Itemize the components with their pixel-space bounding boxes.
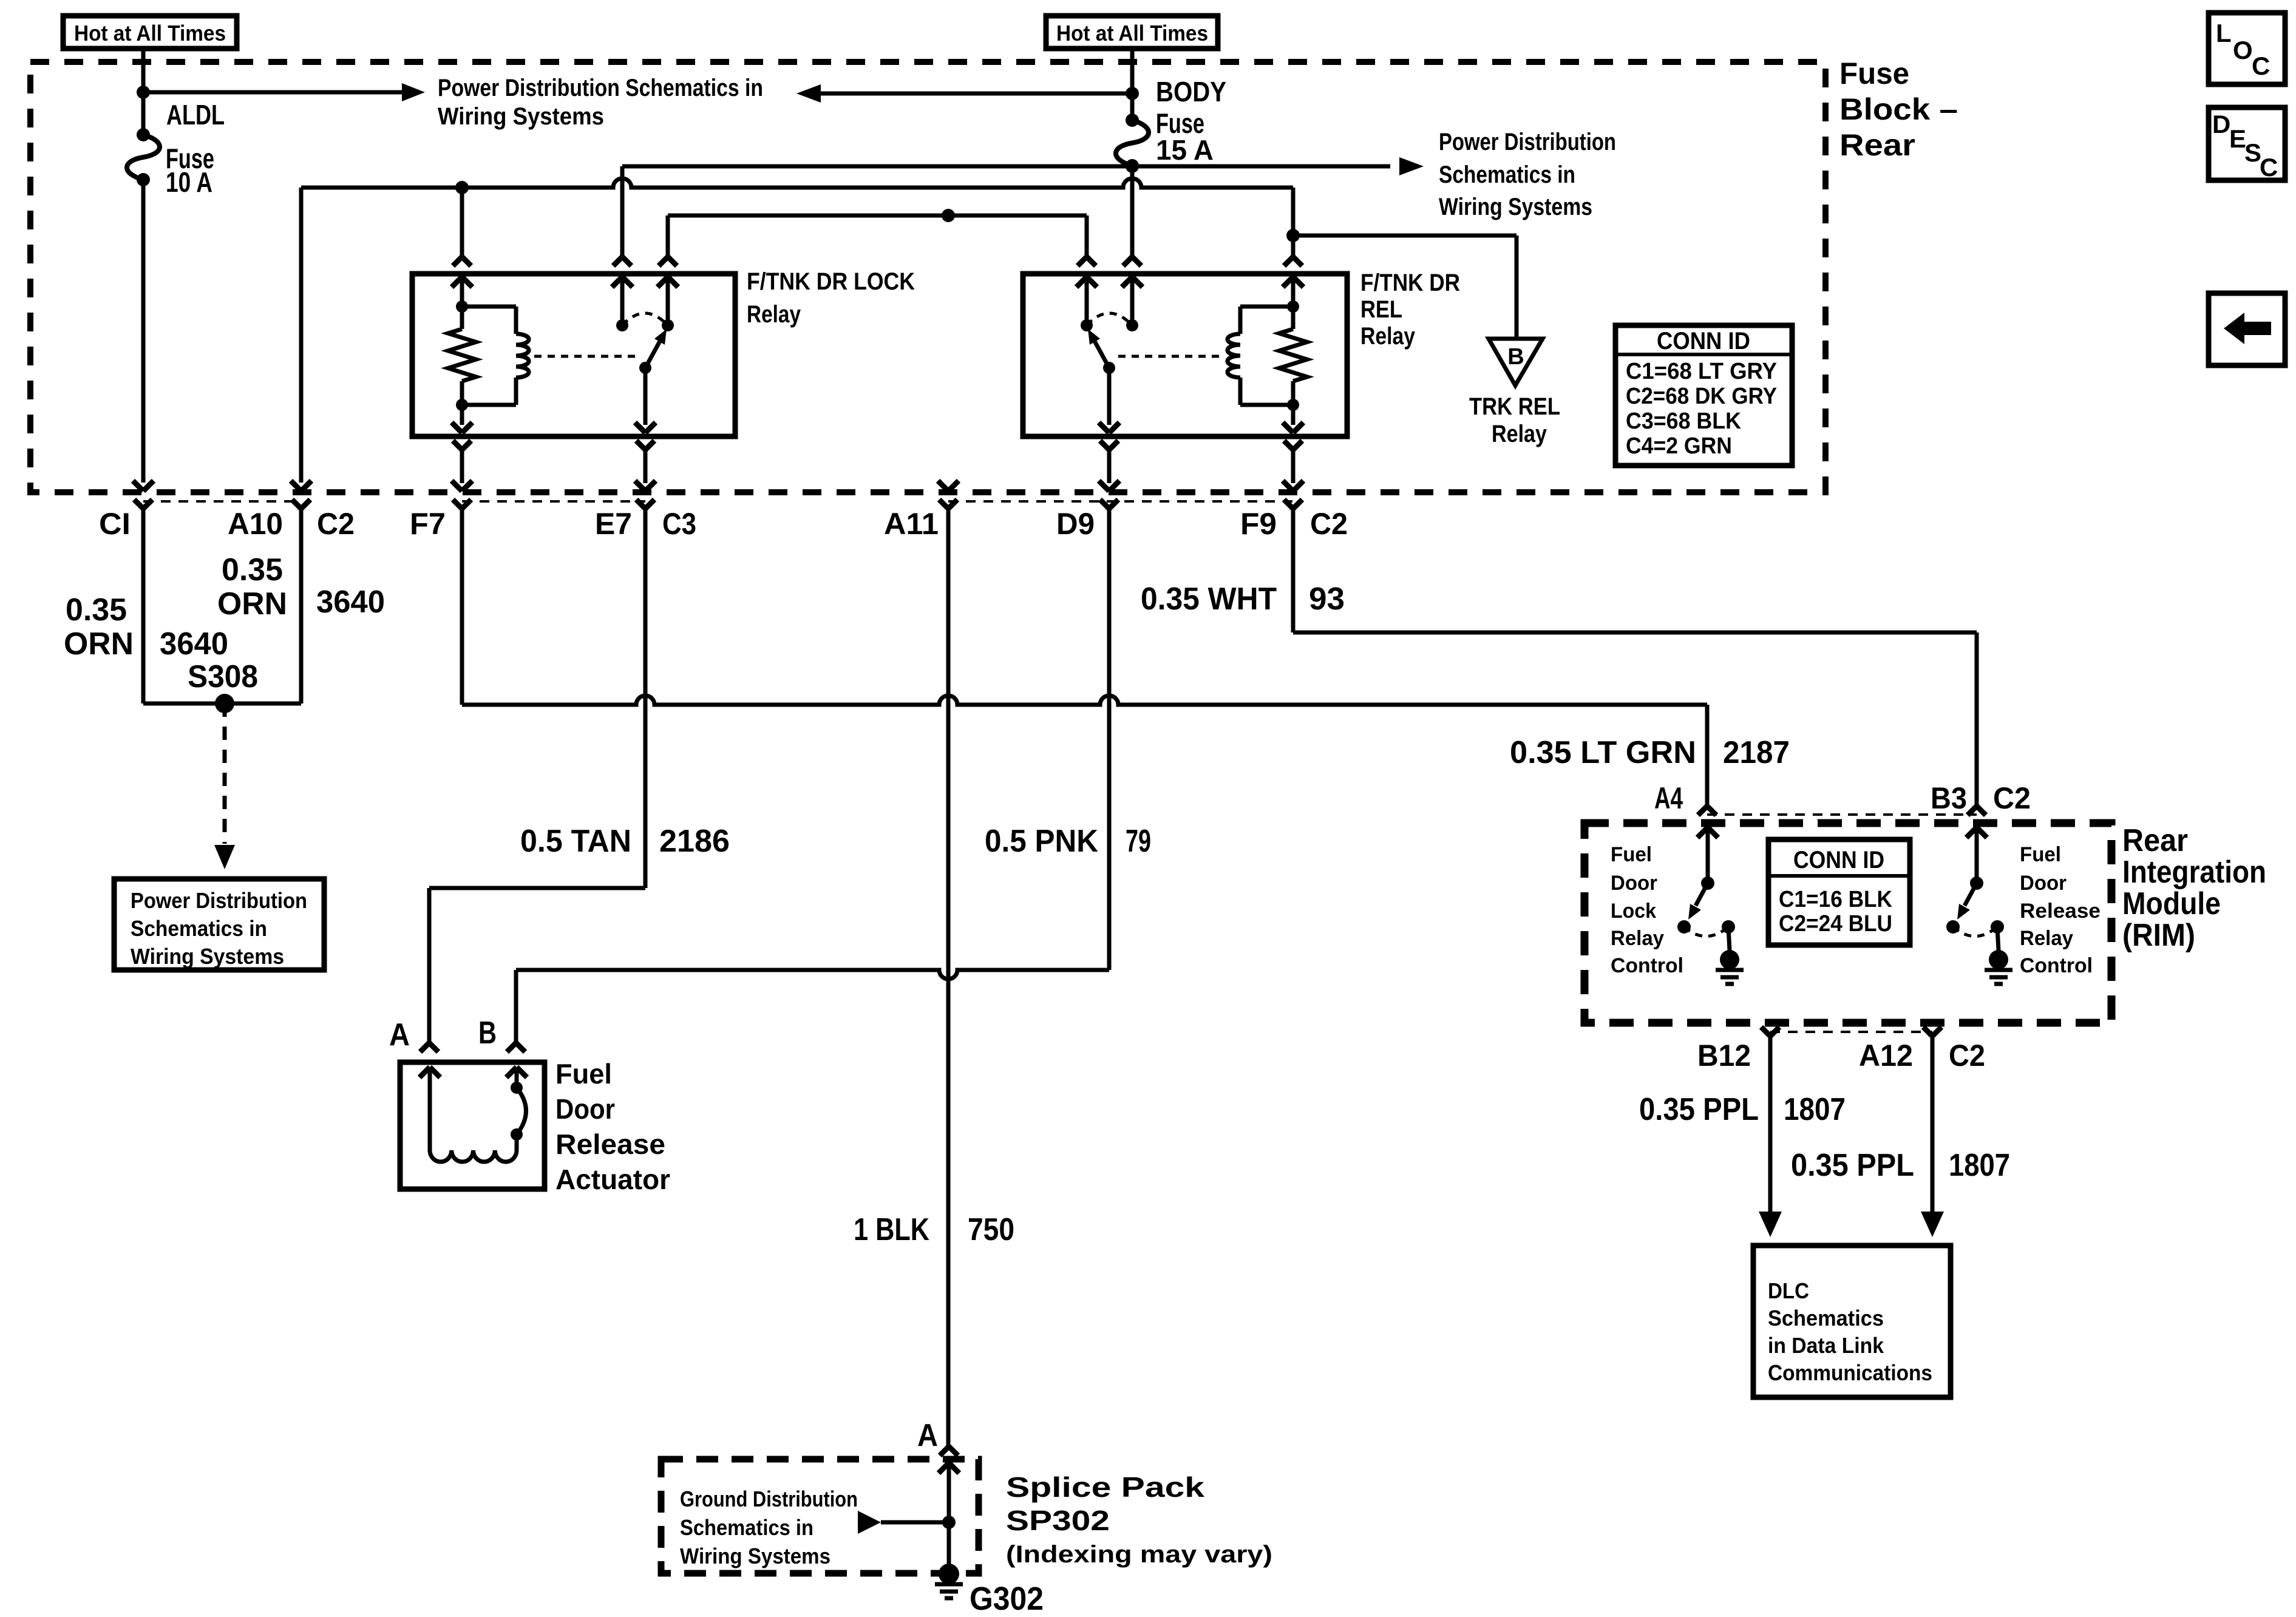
dashed actuation link relay2 — [1118, 355, 1221, 358]
node relay1 contact E7 dot — [616, 319, 628, 331]
label B (actuator pin) — [478, 1015, 497, 1051]
svg-text:(RIM): (RIM) — [2122, 918, 2195, 953]
terminal fork below relay2 switch — [1100, 441, 1118, 483]
DESC reference box — [2209, 107, 2285, 181]
svg-text:Relay: Relay — [1360, 323, 1416, 350]
splice S308 dot — [215, 694, 234, 713]
label E7 — [595, 507, 632, 541]
svg-text:1807: 1807 — [1949, 1148, 2010, 1183]
connector crossing F9/C2 at block bottom — [1283, 481, 1303, 632]
svg-text:Release: Release — [555, 1128, 665, 1160]
terminal fork RIM B12 — [1761, 1027, 1779, 1212]
svg-text:G302: G302 — [970, 1581, 1044, 1617]
svg-text:0.35 PPL: 0.35 PPL — [1639, 1092, 1759, 1127]
connector crossing CI at block bottom — [133, 481, 154, 703]
svg-text:O: O — [2233, 36, 2253, 64]
svg-text:Relay: Relay — [1611, 927, 1664, 950]
LOC reference box — [2209, 13, 2285, 84]
switch arm relay2 with arrowhead — [1088, 329, 1109, 368]
label B3 — [1931, 781, 1967, 815]
arrow up into actuator A — [419, 1067, 440, 1150]
svg-text:Schematics in: Schematics in — [1439, 161, 1575, 188]
connector pair dash CI-A10 — [143, 500, 301, 503]
label 93 — [1309, 581, 1345, 617]
svg-text:Control: Control — [2020, 954, 2093, 977]
svg-text:B3: B3 — [1931, 781, 1967, 815]
wire from Hot box2 down — [1130, 49, 1135, 120]
wire relay2 common exit down — [1099, 368, 1119, 433]
svg-text:C2=24 BLU: C2=24 BLU — [1779, 911, 1892, 937]
svg-text:S308: S308 — [188, 659, 258, 694]
node relay1 common dot — [639, 362, 651, 374]
terminal fork above relay2 contact from BODY — [1123, 257, 1141, 266]
svg-text:Integration: Integration — [2122, 855, 2266, 890]
svg-text:1 BLK: 1 BLK — [854, 1212, 929, 1247]
node RIM right pivot dot — [1970, 876, 1983, 890]
node F7 junction dot on line2 — [455, 181, 469, 194]
svg-text:E: E — [2229, 124, 2246, 153]
svg-text:Wiring Systems: Wiring Systems — [680, 1544, 830, 1568]
svg-text:10 A: 10 A — [166, 166, 212, 198]
table CONN ID (fuse block connectors) — [1615, 325, 1792, 466]
bus line1: E7 drop to right arrow into Power Distribution — [622, 157, 1424, 257]
coil in relay1 — [462, 307, 529, 405]
svg-text:C1=16 BLK: C1=16 BLK — [1779, 887, 1893, 912]
label S308 — [188, 659, 258, 694]
label Power Distribution Schematics in Wiring Systems (top right) — [1439, 129, 1616, 220]
coil in relay2 — [1228, 307, 1293, 405]
power feed box 2 Hot at All Times — [1046, 16, 1218, 49]
label 0.35 ORN (CI wire) — [64, 592, 134, 662]
svg-text:D: D — [2212, 110, 2230, 138]
wire relay1 coil bottom exit — [452, 405, 472, 433]
ground symbol RIM left — [1716, 950, 1744, 984]
svg-text:Hot at All Times: Hot at All Times — [74, 21, 226, 46]
wire splice to ground — [947, 1522, 951, 1574]
svg-text:C2: C2 — [1949, 1039, 1985, 1073]
back navigation arrow box — [2209, 293, 2285, 365]
fuse BODY 15A symbol — [1116, 114, 1149, 172]
label 0.35 LT GRN — [1510, 735, 1696, 770]
connector crossing D9 at block bottom — [1099, 481, 1119, 970]
node relay2 coil top dot — [1287, 300, 1299, 313]
svg-text:Release: Release — [2020, 900, 2101, 923]
dashed contact arc relay1 — [622, 313, 668, 325]
label Splice Pack SP302 — [1006, 1471, 1272, 1568]
node RIM left contact dot — [1677, 920, 1691, 934]
node RIM left ground contact dot — [1722, 920, 1735, 934]
svg-text:Wiring Systems: Wiring Systems — [438, 103, 604, 130]
svg-text:Fuel: Fuel — [2020, 843, 2061, 866]
svg-text:Wiring Systems: Wiring Systems — [1439, 194, 1592, 220]
ground symbol RIM right — [1985, 950, 2012, 984]
svg-text:E7: E7 — [595, 507, 632, 541]
label F/TNK DR LOCK Relay — [747, 268, 915, 328]
svg-text:ORN: ORN — [217, 586, 287, 622]
svg-text:Rear: Rear — [2122, 823, 2188, 858]
terminal fork splice A — [940, 1446, 958, 1456]
node BODY fuse output dot on bus line1 — [1126, 160, 1139, 173]
label F/TNK DR REL Relay — [1360, 269, 1460, 350]
label C2 at A12 — [1949, 1039, 1985, 1073]
svg-text:0.5 PNK: 0.5 PNK — [985, 824, 1098, 859]
label 3640 (CI wire) — [160, 626, 228, 662]
arrow up RIM right switch — [1966, 827, 1987, 883]
svg-text:F7: F7 — [410, 507, 446, 541]
terminal fork below relay1 at F7 — [453, 441, 471, 483]
label A10 — [228, 507, 283, 541]
svg-text:D9: D9 — [1056, 507, 1095, 541]
RIM right switch arm — [1957, 883, 1977, 920]
arrow into DLC box from B12 — [1759, 1212, 1782, 1237]
label A (actuator pin) — [389, 1017, 410, 1053]
terminal fork below relay2 coil — [1284, 441, 1302, 483]
connector triangle B to TRK REL Relay — [1489, 339, 1543, 385]
svg-text:0.5 TAN: 0.5 TAN — [520, 824, 631, 859]
label CI — [99, 507, 131, 541]
dashed arc RIM right switch — [1953, 927, 1997, 937]
svg-text:BODY: BODY — [1156, 76, 1226, 107]
svg-text:TRK REL: TRK REL — [1469, 393, 1560, 420]
wire 0.5 PNK from D9 to actuator B — [516, 970, 1109, 1043]
node actuator plunger bottom dot — [511, 1128, 523, 1141]
svg-text:Lock: Lock — [1611, 900, 1656, 923]
arrow up into relay1 switch E7 — [612, 277, 633, 325]
arrow up into relay2 coil — [1283, 277, 1303, 307]
svg-text:Door: Door — [2020, 872, 2067, 895]
connector pair dash F7-E7 — [462, 500, 645, 503]
terminal fork RIM A4 — [1698, 806, 1716, 815]
label 0.35 PPL (B12) — [1639, 1092, 1759, 1127]
node relay2 contact D9 dot — [1081, 319, 1093, 331]
wire 0.35 LT GRN from F7 to RIM A4 — [462, 696, 1707, 806]
node RIM right contact dot — [1946, 920, 1960, 934]
bus line2: A10 corner to F9 corner — [301, 178, 1293, 483]
label Fuel Door Release Relay Control — [2020, 843, 2101, 977]
svg-text:F/TNK DR LOCK: F/TNK DR LOCK — [747, 268, 915, 295]
label F7 — [410, 507, 446, 541]
svg-text:A10: A10 — [228, 507, 283, 541]
svg-text:S: S — [2244, 138, 2261, 167]
svg-text:Door: Door — [1611, 872, 1657, 895]
svg-text:3640: 3640 — [160, 626, 228, 662]
node RIM right ground contact dot — [1991, 920, 2004, 934]
terminal fork RIM B3 — [1968, 806, 1986, 815]
svg-text:79: 79 — [1126, 824, 1151, 859]
wire arrow to Power Distribution (pointing right) — [143, 83, 425, 101]
svg-text:C3: C3 — [662, 507, 696, 541]
svg-text:DLC: DLC — [1768, 1278, 1809, 1303]
label 1807 (B12) — [1784, 1092, 1846, 1127]
svg-text:A11: A11 — [884, 507, 939, 541]
svg-text:0.35: 0.35 — [222, 552, 283, 588]
svg-text:A: A — [917, 1418, 938, 1453]
wire 0.35 WHT from F9/C2 to RIM B3 — [1293, 632, 1977, 806]
svg-text:B: B — [478, 1015, 497, 1051]
wire arrow to Power Distribution (pointing left) — [796, 84, 1132, 103]
resistor in relay2 — [1279, 307, 1307, 405]
label Rear Integration Module (RIM) — [2122, 823, 2266, 953]
RIM left switch arm — [1688, 883, 1708, 920]
label Ground Distribution Schematics in Wiring Systems — [680, 1486, 858, 1568]
label B12 — [1697, 1039, 1751, 1073]
wire from Hot box1 down to ALDL fuse — [141, 49, 146, 135]
label D9 — [1056, 507, 1095, 541]
power feed box 1 Hot at All Times — [63, 16, 237, 49]
svg-text:Wiring Systems: Wiring Systems — [131, 944, 284, 969]
svg-text:0.35: 0.35 — [66, 592, 127, 628]
svg-text:C3=68 BLK: C3=68 BLK — [1626, 408, 1742, 434]
wire RIM right contact to ground — [1997, 927, 1999, 951]
svg-text:Fuse: Fuse — [1839, 56, 1909, 90]
svg-text:Actuator: Actuator — [555, 1164, 670, 1195]
svg-text:C4=2 GRN: C4=2 GRN — [1626, 433, 1732, 459]
svg-text:A4: A4 — [1654, 781, 1683, 815]
svg-text:C2: C2 — [317, 507, 355, 541]
terminal fork actuator A — [420, 1043, 438, 1052]
wire to TRK REL relay triangle — [1293, 236, 1517, 339]
label 1 BLK — [854, 1212, 929, 1247]
label 79 — [1126, 824, 1151, 859]
label 3640 (A10 wire) — [316, 585, 385, 620]
node splice junction dot — [942, 1516, 956, 1529]
svg-text:0.35 PPL: 0.35 PPL — [1791, 1148, 1914, 1183]
svg-text:CONN ID: CONN ID — [1657, 328, 1750, 354]
label A (splice pin) — [917, 1418, 938, 1453]
svg-text:CI: CI — [99, 507, 131, 541]
svg-text:C: C — [2260, 153, 2278, 181]
svg-text:15 A: 15 A — [1156, 134, 1214, 166]
label C3 — [662, 507, 696, 541]
wire plunger to coil — [515, 1134, 519, 1150]
svg-text:(Indexing may vary): (Indexing may vary) — [1006, 1541, 1272, 1568]
svg-text:0.35 LT GRN: 0.35 LT GRN — [1510, 735, 1696, 770]
svg-text:2186: 2186 — [659, 824, 730, 859]
svg-text:C2=68 DK GRY: C2=68 DK GRY — [1626, 384, 1777, 409]
svg-text:Door: Door — [555, 1093, 615, 1125]
label Fuel Door Release Actuator — [555, 1058, 670, 1195]
label 2186 — [659, 824, 730, 859]
label 750 — [968, 1212, 1014, 1247]
splice pack dashed box — [661, 1459, 979, 1573]
arrow up into relay1 coil — [452, 277, 472, 307]
node RIM left pivot dot — [1701, 876, 1714, 890]
node relay1 coil bottom dot — [456, 399, 468, 411]
svg-text:B: B — [1507, 344, 1524, 370]
svg-text:1807: 1807 — [1784, 1092, 1846, 1127]
svg-text:Control: Control — [1611, 954, 1683, 977]
bus line3: C3 corner to D9 corner — [668, 215, 1087, 257]
svg-text:F9: F9 — [1240, 507, 1277, 541]
svg-text:Schematics in: Schematics in — [131, 916, 267, 941]
svg-text:A12: A12 — [1859, 1039, 1913, 1073]
connector pair dash A11-D9-F9 — [948, 500, 1293, 503]
label C2 at A10 — [317, 507, 355, 541]
connector pair dash A4-B3 — [1707, 813, 1977, 816]
arrow up into splice pack — [939, 1463, 959, 1522]
node TRK REL tap dot on F9 wire — [1286, 229, 1300, 242]
arrow from ground distribution text — [858, 1511, 949, 1534]
svg-text:Schematics: Schematics — [1768, 1306, 1884, 1331]
node ALDL tap dot — [137, 86, 150, 99]
connector pair dash B12-A12 — [1770, 1031, 1932, 1033]
connector crossing F7 at block bottom — [452, 481, 472, 705]
svg-text:ALDL: ALDL — [166, 99, 225, 131]
terminal fork above relay2 contact D9 — [1078, 257, 1096, 266]
label C2 at F9 — [1310, 507, 1348, 541]
dashed arc RIM left switch — [1684, 927, 1728, 937]
table CONN ID (RIM) — [1768, 839, 1910, 945]
svg-text:750: 750 — [968, 1212, 1014, 1247]
svg-text:L: L — [2216, 19, 2232, 47]
svg-text:Communications: Communications — [1768, 1360, 1932, 1385]
arrow into DLC box from A12 — [1921, 1212, 1944, 1237]
dashed arrow from S308 to Power Distribution box — [214, 703, 235, 869]
component box Fuel Door Release Actuator — [400, 1062, 545, 1189]
svg-text:Power Distribution Schematics: Power Distribution Schematics in — [438, 75, 763, 101]
arrow up into relay1 switch C3 — [657, 277, 678, 325]
arrow up into relay2 switch BODY side — [1122, 277, 1143, 325]
svg-text:Relay: Relay — [2020, 927, 2073, 950]
svg-text:F/TNK DR: F/TNK DR — [1360, 269, 1460, 296]
label 0.35 WHT — [1141, 581, 1277, 617]
svg-text:C2: C2 — [1993, 781, 2031, 815]
label 0.35 ORN (A10 wire) — [217, 552, 287, 622]
label A12 — [1859, 1039, 1913, 1073]
label BODY Fuse 15 A — [1156, 76, 1226, 166]
label F9 — [1240, 507, 1277, 541]
label ALDL Fuse 10 A — [166, 99, 225, 198]
connector crossing A10/C2 at block bottom — [291, 481, 311, 703]
svg-text:Rear: Rear — [1839, 128, 1915, 162]
label C2 at B3 — [1993, 781, 2031, 815]
svg-text:Fuel: Fuel — [1611, 843, 1652, 866]
dashed actuation link relay1 — [534, 355, 636, 358]
svg-text:Fuel: Fuel — [555, 1058, 612, 1090]
svg-text:ORN: ORN — [64, 626, 134, 662]
label A11 — [884, 507, 939, 541]
svg-text:A: A — [389, 1017, 410, 1053]
connector crossing A11 at block bottom — [938, 481, 959, 1446]
node actuator plunger top dot — [511, 1082, 523, 1094]
svg-text:Hot at All Times: Hot at All Times — [1056, 21, 1208, 46]
svg-text:Ground Distribution: Ground Distribution — [680, 1486, 858, 1511]
label 2187 — [1723, 735, 1790, 770]
svg-text:SP302: SP302 — [1006, 1505, 1110, 1536]
arrow up into actuator B — [506, 1067, 527, 1088]
svg-text:0.35 WHT: 0.35 WHT — [1141, 581, 1277, 617]
wire ALDL fuse down to block bottom — [141, 180, 146, 483]
fuse block - rear dashed boundary box — [30, 62, 1826, 492]
Rear Integration Module dashed box — [1584, 823, 2111, 1023]
terminal fork actuator B — [507, 1043, 525, 1052]
svg-text:Relay: Relay — [747, 301, 801, 328]
svg-text:C: C — [2252, 52, 2270, 80]
relay K1 F/TNK DR LOCK box — [412, 274, 735, 436]
wire U joining CI and A10 wires — [143, 702, 301, 706]
label G302 — [970, 1581, 1044, 1617]
wire 0.5 TAN from E7/C3 to actuator A — [429, 888, 645, 1043]
switch arm relay1 with arrowhead — [645, 329, 667, 368]
node A11 junction dot on line3 — [942, 209, 955, 222]
label Fuel Door Lock Relay Control — [1611, 843, 1683, 977]
label TRK REL Relay — [1469, 393, 1560, 447]
svg-text:Block –: Block – — [1839, 92, 1958, 126]
svg-text:Power Distribution: Power Distribution — [131, 888, 307, 913]
label 1807 (A12) — [1949, 1148, 2010, 1183]
arrow up into relay2 switch D9 — [1076, 277, 1097, 325]
label A4 — [1654, 781, 1683, 815]
reference box Power Distribution Schematics in Wiring Systems — [114, 879, 324, 970]
svg-text:93: 93 — [1309, 581, 1345, 617]
svg-text:Schematics in: Schematics in — [680, 1515, 813, 1540]
node relay2 coil bottom dot — [1287, 399, 1299, 411]
label 0.5 PNK — [985, 824, 1098, 859]
wire RIM left contact to ground — [1728, 927, 1730, 951]
svg-text:Power Distribution: Power Distribution — [1439, 129, 1616, 155]
terminal fork above relay2 coil pin F9 — [1284, 257, 1302, 266]
arrow up RIM left switch — [1697, 827, 1718, 883]
svg-text:REL: REL — [1360, 296, 1402, 323]
fuse ALDL 10A symbol — [127, 128, 160, 186]
svg-text:Relay: Relay — [1492, 421, 1547, 447]
relay K2 F/TNK DR REL box — [1023, 274, 1347, 436]
label Fuse Block - Rear — [1839, 56, 1958, 162]
node relay2 common dot — [1103, 362, 1115, 374]
wire relay1 common exit down — [635, 368, 656, 433]
node relay2 contact BODY dot — [1126, 319, 1138, 331]
svg-text:C2: C2 — [1310, 507, 1348, 541]
terminal fork RIM A12 — [1923, 1027, 1941, 1212]
node relay1 contact C3 dot — [662, 319, 674, 331]
svg-text:B12: B12 — [1697, 1039, 1751, 1073]
label 0.35 PPL (A12) — [1791, 1148, 1914, 1183]
dashed contact arc relay2 — [1087, 313, 1132, 325]
actuator plunger arc — [517, 1088, 526, 1134]
reference box DLC Schematics in Data Link Communications — [1753, 1246, 1951, 1397]
node BODY tap dot — [1126, 87, 1139, 100]
wire BODY down to relay contact — [1130, 166, 1135, 257]
svg-text:C1=68 LT GRY: C1=68 LT GRY — [1626, 359, 1777, 384]
svg-text:CONN ID: CONN ID — [1793, 847, 1884, 873]
svg-text:2187: 2187 — [1723, 735, 1790, 770]
resistor in relay1 — [448, 307, 476, 405]
ground G302 symbol — [935, 1564, 963, 1598]
svg-text:3640: 3640 — [316, 585, 385, 620]
terminal fork below relay1 switch — [636, 441, 654, 483]
label 0.5 TAN — [520, 824, 631, 859]
svg-text:Splice Pack: Splice Pack — [1006, 1471, 1205, 1503]
terminal fork above relay1 contact E7 — [613, 257, 631, 266]
wire relay2 coil bottom exit — [1283, 405, 1303, 433]
wire F7 drop from line2 — [460, 188, 464, 257]
svg-text:in Data Link: in Data Link — [1768, 1333, 1884, 1358]
node relay1 coil top dot — [456, 300, 468, 313]
label Power Distribution Schematics in Wiring Systems (top left) — [438, 75, 763, 130]
terminal fork above relay1 coil pin — [453, 257, 471, 266]
coil in actuator — [430, 1150, 517, 1162]
connector crossing E7/C3 at block bottom — [635, 481, 656, 888]
terminal fork above relay1 contact C3 — [659, 257, 677, 266]
svg-text:Module: Module — [2122, 886, 2221, 921]
